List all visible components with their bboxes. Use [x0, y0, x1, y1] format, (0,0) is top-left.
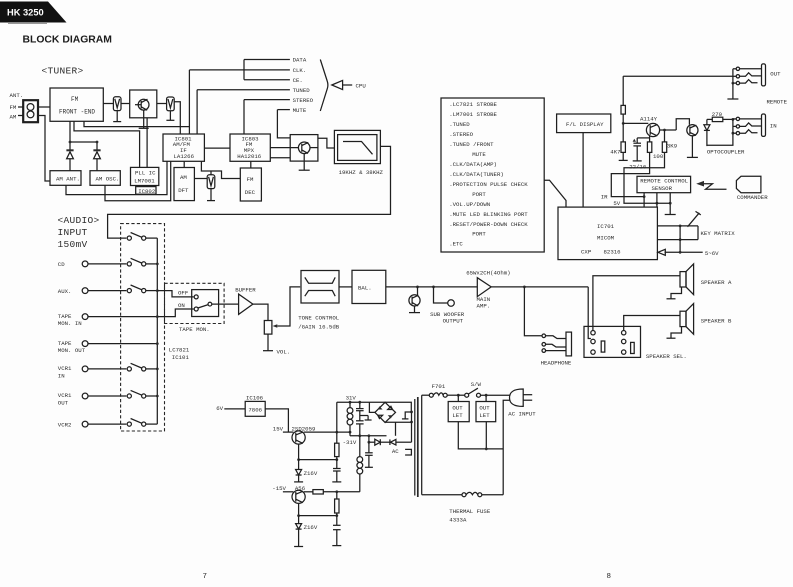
resistor R(-15V) — [336, 492, 338, 499]
5-6V supply line — [665, 251, 703, 253]
choke coil L2 — [359, 436, 361, 457]
svg-text:-31V: -31V — [343, 439, 357, 446]
outlet box 2 — [485, 395, 487, 401]
ground below C(15V) — [332, 481, 341, 483]
resistor 3K9 — [664, 130, 666, 142]
ground below FL2 — [169, 111, 171, 121]
svg-text:BLOCK DIAGRAM: BLOCK DIAGRAM — [23, 35, 112, 46]
wire list box to IC701 — [544, 180, 566, 207]
svg-text:AM: AM — [180, 174, 187, 181]
svg-text:IC802: IC802 — [138, 188, 156, 195]
fuse F701 — [422, 394, 430, 396]
wire 31V rail to bridge AC leg — [369, 402, 375, 412]
svg-text:IN: IN — [58, 373, 65, 380]
svg-text:BUFFER: BUFFER — [235, 287, 256, 294]
wire FL1 to RF amp box — [121, 103, 130, 105]
tape monitor contacts — [194, 295, 198, 299]
svg-text:HA12016: HA12016 — [237, 153, 261, 160]
svg-text:OUT: OUT — [58, 400, 69, 407]
svg-text:CPU: CPU — [356, 82, 367, 89]
svg-text:FM: FM — [71, 96, 79, 103]
svg-text:VCR1: VCR1 — [58, 365, 72, 372]
wire -15V rail — [283, 491, 294, 493]
wire connector to FM front-end — [38, 106, 50, 108]
AC neutral wire — [503, 400, 509, 495]
wire collector — [660, 129, 677, 131]
tape monitor switch box — [192, 290, 219, 317]
varactor diode D801 — [66, 149, 73, 151]
svg-text:.CLK/DATA(AMP): .CLK/DATA(AMP) — [449, 161, 497, 168]
speaker A — [680, 272, 686, 287]
ground below volume pot — [267, 334, 269, 351]
wire STEREO to IC803 — [243, 100, 245, 134]
sub woofer output jack — [434, 287, 448, 303]
block FM DEC — [240, 168, 261, 201]
wire amp output — [491, 286, 588, 288]
input terminal TAPE MON. OUT — [82, 341, 88, 347]
wire to speaker selector — [588, 287, 591, 339]
wire IC801 bottom jog to detector filter — [201, 161, 240, 178]
sensor pin IR — [643, 193, 645, 207]
svg-text:SPEAKER B: SPEAKER B — [701, 318, 732, 325]
ground below mute switch — [303, 154, 305, 171]
wire bus to OFF contact — [157, 291, 193, 297]
wire Q2 lower node — [298, 503, 300, 515]
resistor R701 — [622, 76, 624, 105]
svg-text:6V: 6V — [216, 405, 223, 412]
svg-text:FM: FM — [10, 104, 17, 111]
wire Q emitter — [298, 444, 300, 460]
buffer amp — [239, 294, 253, 314]
svg-text:Z16V: Z16V — [304, 524, 318, 531]
wire key matrix to 5-6V — [679, 226, 681, 252]
outlet return wires — [458, 422, 503, 449]
svg-text:65Wx2CH(4Ohm): 65Wx2CH(4Ohm) — [466, 269, 510, 276]
block IC801 AM/FM IF LA1266 — [163, 134, 204, 161]
main amplifier — [477, 278, 491, 297]
cap midpoint ground — [360, 415, 368, 417]
svg-text:VCR1: VCR1 — [58, 392, 72, 399]
AC diodes pair — [368, 436, 370, 442]
varactor diode D802 — [93, 149, 100, 151]
wire TAPE MON. IN — [88, 316, 157, 318]
svg-text:FRONT -END: FRONT -END — [59, 109, 95, 116]
svg-text:DATA: DATA — [293, 57, 307, 64]
sensor pin 5V — [656, 193, 658, 207]
block IC803 FM MPX HA12016 — [230, 134, 270, 161]
ground below zener upper — [294, 481, 303, 483]
ground below FL3 — [210, 189, 212, 201]
input terminal VCR1 OUT — [82, 393, 88, 399]
svg-text:PORT: PORT — [472, 231, 486, 238]
svg-text:HK 3250: HK 3250 — [7, 7, 44, 17]
svg-text:AM OSC.: AM OSC. — [96, 176, 120, 183]
svg-text:AC INPUT: AC INPUT — [508, 411, 536, 418]
choke coil L1 — [349, 402, 351, 408]
ground below RF amp — [143, 110, 145, 128]
micom port list box — [441, 98, 544, 252]
wire tuner output to input selector — [108, 146, 391, 238]
block BAL. — [352, 270, 386, 303]
svg-text:STEREO: STEREO — [293, 97, 314, 104]
input terminal AUX. — [82, 288, 88, 294]
outlet box 1 — [457, 395, 459, 401]
wire AM antenna line — [38, 116, 50, 182]
mute switch Q802 box — [290, 135, 318, 162]
svg-text:ON: ON — [178, 302, 185, 309]
node outlet1 — [457, 394, 460, 397]
svg-text:AM: AM — [10, 114, 17, 121]
wire FM label to connector — [18, 106, 23, 108]
svg-text:3K9: 3K9 — [667, 143, 678, 150]
wire RF amp to filter FL2 — [157, 103, 167, 105]
wire selector to speaker A — [593, 276, 680, 331]
svg-text:SPEAKER A: SPEAKER A — [701, 279, 732, 286]
svg-text:AUX.: AUX. — [58, 288, 72, 295]
signal line STEREO — [244, 99, 290, 101]
svg-text:VCR2: VCR2 — [58, 421, 72, 428]
wire IR — [611, 152, 649, 196]
svg-text:IR: IR — [601, 193, 608, 200]
block IC701 MICOM CXP82316 — [558, 207, 657, 260]
ground speaker A — [671, 287, 682, 299]
antenna connector J1 — [23, 100, 38, 122]
wire mute switch to scope — [318, 138, 335, 148]
svg-text:VOL.: VOL. — [277, 348, 291, 355]
bus DATA-CE bracket — [243, 60, 245, 80]
svg-text:OPTOCOUPLER: OPTOCOUPLER — [707, 148, 745, 155]
ground below zener lower — [294, 546, 303, 548]
key matrix lines — [657, 225, 698, 227]
svg-text:KEY MATRIX: KEY MATRIX — [701, 230, 736, 237]
wire FM front-end to filter FL1 — [103, 103, 113, 105]
svg-text:AC: AC — [392, 448, 399, 455]
wire 5V — [624, 152, 670, 203]
block F/L DISPLAY — [557, 114, 611, 133]
wire bridge plus to transformer side — [387, 402, 412, 412]
svg-text:OUT: OUT — [452, 405, 463, 412]
svg-text:DEC: DEC — [245, 189, 256, 196]
svg-text:Z16V: Z16V — [304, 470, 318, 477]
svg-text:REMOTE: REMOTE — [767, 99, 788, 106]
pilot filter scope box — [334, 130, 380, 163]
svg-text:CD: CD — [58, 261, 65, 268]
wire IC106 output — [265, 409, 288, 432]
block TONE CONTROL — [301, 271, 339, 304]
key matrix switch symbol — [688, 213, 700, 227]
resistor 270 — [707, 118, 712, 120]
svg-text:S/W: S/W — [471, 381, 482, 388]
wire 270 to remote-in jack — [723, 118, 733, 120]
remote out jack — [623, 75, 733, 77]
wire front-end AGC line — [84, 121, 189, 126]
svg-text:/GAIN 16.5dB: /GAIN 16.5dB — [298, 323, 340, 330]
svg-text:4K7: 4K7 — [610, 149, 620, 156]
model banner HK 3250 — [0, 2, 67, 23]
svg-text:.STEREO: .STEREO — [449, 131, 473, 138]
svg-text:150mV: 150mV — [58, 239, 88, 250]
label box IC802 — [136, 187, 156, 195]
svg-text:.MUTE LED BLINKING PORT: .MUTE LED BLINKING PORT — [449, 211, 528, 218]
ground below muting transistor — [414, 306, 416, 313]
svg-text:LET: LET — [452, 412, 463, 419]
CPU bracket — [320, 60, 328, 112]
resistor R(15V) — [336, 432, 338, 443]
svg-text:IC701: IC701 — [597, 223, 615, 230]
capacitor C(15V) — [333, 468, 341, 470]
svg-text:DFT: DFT — [178, 187, 189, 194]
selector switch VCR2 — [88, 423, 126, 425]
svg-text:MICOM: MICOM — [597, 235, 615, 242]
wire IC803 to FM DEC — [250, 161, 252, 168]
ground below C(-15V) — [332, 545, 341, 547]
wire to headphone — [524, 287, 541, 336]
headphone jack — [542, 334, 546, 338]
wire AM DFT to filter FL3 — [194, 178, 207, 180]
resistor 100 — [647, 142, 651, 153]
speaker selector box — [584, 326, 641, 357]
input terminal TAPE MON. IN — [82, 314, 88, 320]
chassis ground at transformer — [405, 412, 411, 419]
wire TAPE MON IN to ON contact — [157, 309, 193, 317]
wire buffer to volume pot — [253, 304, 268, 320]
svg-text:F/L DISPLAY: F/L DISPLAY — [566, 121, 604, 128]
svg-text:AMP.: AMP. — [477, 303, 491, 310]
wire TUNED to IC801 — [196, 90, 198, 134]
svg-text:TAPE: TAPE — [58, 313, 72, 320]
wire MUTE to mute switch — [277, 110, 290, 138]
filter FL2 — [167, 97, 175, 111]
svg-text:SENSOR: SENSOR — [652, 185, 673, 192]
svg-text:FM: FM — [247, 176, 254, 183]
svg-text:SPEAKER SEL.: SPEAKER SEL. — [646, 353, 687, 360]
signal line CE. — [244, 79, 290, 81]
wire 6V to IC106 — [224, 408, 245, 410]
shield bracket lower — [405, 449, 411, 455]
svg-text:MUTE: MUTE — [472, 151, 486, 158]
ground below AC cap — [365, 466, 373, 468]
svg-text:7: 7 — [203, 573, 208, 581]
speaker B — [680, 311, 686, 326]
wire tape monitor to buffer — [212, 303, 239, 305]
wire to optocoupler transistor — [676, 119, 689, 130]
wire IC801 to AM DFT — [183, 161, 185, 167]
wire AM ANT to IC801 — [66, 161, 167, 194]
selector switch CD — [88, 263, 126, 265]
block PLL IC LM7001 — [131, 167, 159, 185]
smoothing caps pair — [359, 402, 361, 408]
wire 15V rail — [283, 431, 294, 433]
svg-text:MON. OUT: MON. OUT — [58, 347, 86, 354]
remote commander handset — [736, 176, 761, 192]
svg-text:5~6V: 5~6V — [705, 250, 719, 257]
svg-text:OUT: OUT — [770, 71, 781, 78]
svg-text:31V: 31V — [346, 395, 357, 402]
svg-text:IN: IN — [770, 122, 777, 129]
wire CLK to tuner — [188, 70, 190, 134]
AC plug — [510, 389, 524, 406]
wire pot wiper to tone control — [277, 287, 300, 326]
signal line MUTE — [277, 109, 290, 111]
capacitor on AC line — [368, 442, 370, 453]
wire AM OSC to IC801 — [105, 161, 171, 201]
ground below FL1 — [116, 111, 118, 122]
selector switch VCR1 IN — [88, 368, 126, 370]
volume pot VR1 — [264, 321, 272, 335]
svg-text:19KHZ & 38KHZ: 19KHZ & 38KHZ — [339, 169, 384, 176]
svg-text:LET: LET — [479, 412, 490, 419]
svg-text:MUTE: MUTE — [293, 107, 307, 114]
optocoupler diode — [706, 119, 708, 124]
svg-text:OUT: OUT — [479, 405, 490, 412]
wire TAPE MON. OUT — [88, 343, 157, 345]
svg-text:BAL.: BAL. — [358, 285, 372, 292]
selector slots — [601, 341, 605, 352]
thermal fuse line — [422, 494, 462, 496]
svg-text:PLL IC: PLL IC — [135, 170, 156, 177]
svg-text:ANT.: ANT. — [10, 92, 24, 99]
svg-text:OFF: OFF — [178, 290, 189, 297]
transformer T701 — [414, 399, 416, 496]
block AM DFT — [174, 168, 194, 201]
optocoupler transistor — [687, 125, 698, 136]
node outlet2 — [485, 394, 488, 397]
input terminal VCR2 — [82, 421, 88, 427]
wire emitter node — [649, 136, 651, 142]
wire FM front-end to PLL IC pin — [74, 121, 140, 167]
input terminal VCR1 IN — [82, 366, 88, 372]
svg-text:8: 8 — [607, 573, 612, 581]
ground speaker B — [671, 327, 682, 339]
selector contacts — [591, 331, 595, 335]
svg-text:OUTPUT: OUTPUT — [443, 318, 464, 325]
varactor bus below FM front-end — [69, 121, 71, 149]
svg-text:IC106: IC106 — [246, 395, 264, 402]
svg-text:.LC7821 STROBE: .LC7821 STROBE — [449, 101, 497, 108]
svg-text:.RESET/POWER-DOWN CHECK: .RESET/POWER-DOWN CHECK — [449, 221, 528, 228]
31V rail — [337, 401, 387, 403]
sensor pin ground — [669, 193, 671, 215]
svg-text:CXP: CXP — [581, 249, 592, 256]
filter FL1 — [113, 97, 121, 111]
svg-text:<AUDIO>: <AUDIO> — [58, 215, 100, 226]
svg-text:.ETC: .ETC — [449, 241, 463, 248]
svg-text:TUNED: TUNED — [293, 87, 311, 94]
signal line DATA — [244, 59, 290, 61]
CPU arrow — [332, 80, 343, 89]
svg-text:INPUT: INPUT — [58, 227, 88, 238]
svg-text:.PROTECTION PULSE CHECK: .PROTECTION PULSE CHECK — [449, 181, 528, 188]
svg-text:TAPE: TAPE — [58, 340, 72, 347]
resistor 4K7 — [621, 142, 625, 153]
svg-text:MON. IN: MON. IN — [58, 320, 82, 327]
wire transformer sense — [411, 412, 413, 442]
svg-text:.LM7001 STROBE: .LM7001 STROBE — [449, 111, 497, 118]
zener Z16V lower — [298, 516, 300, 524]
wire optocoupler return loop — [707, 133, 733, 145]
wire FL2 to IC801 input — [174, 102, 180, 134]
svg-text:THERMAL FUSE: THERMAL FUSE — [449, 508, 491, 515]
ground remote out — [732, 82, 735, 85]
wire IC801 to IC803 — [204, 147, 230, 149]
svg-text:LM7001: LM7001 — [134, 178, 155, 185]
selector switch VCR1 OUT — [88, 395, 126, 397]
signal line CLK. — [189, 69, 290, 71]
remote in jack — [732, 119, 734, 133]
wire -31V to bridge minus — [395, 422, 397, 436]
svg-text:100: 100 — [653, 153, 664, 160]
svg-text:COMMANDER: COMMANDER — [737, 194, 768, 201]
svg-text:<TUNER>: <TUNER> — [42, 66, 84, 77]
ground below 4K7 — [619, 159, 628, 161]
-31V rail — [350, 435, 387, 437]
block AM OSC. — [90, 171, 120, 186]
svg-text:REMOTE CONTROL: REMOTE CONTROL — [640, 178, 688, 185]
wire IC803 lower line to mute switch — [270, 157, 290, 159]
transistor A56 — [292, 490, 305, 503]
svg-text:AM ANT.: AM ANT. — [56, 176, 80, 183]
ground below 22/16 — [633, 160, 642, 162]
block REMOTE CONTROL SENSOR — [637, 176, 691, 192]
svg-text:TONE CONTROL: TONE CONTROL — [298, 315, 340, 322]
svg-text:TAPE MON.: TAPE MON. — [179, 326, 210, 333]
resistor base A56 — [304, 491, 313, 493]
selector switch TUNER — [125, 237, 127, 239]
wire bridge minus — [385, 421, 411, 423]
svg-text:LC7821: LC7821 — [169, 347, 190, 354]
ground below optocoupler — [691, 136, 693, 158]
svg-text:F701: F701 — [432, 383, 446, 390]
svg-text:IC101: IC101 — [172, 354, 190, 361]
svg-text:4333A: 4333A — [449, 516, 467, 523]
svg-text:82316: 82316 — [604, 249, 622, 256]
svg-text:CE.: CE. — [293, 77, 303, 84]
selector switch AUX. — [88, 290, 126, 292]
svg-text:-15V: -15V — [272, 485, 286, 492]
svg-text:270: 270 — [712, 111, 723, 118]
capacitor C(-15V) — [333, 524, 341, 526]
RF amplifier transistor Q801 box — [130, 90, 157, 118]
bridge rectifier D701 — [375, 402, 396, 422]
muting transistor Q2 — [417, 287, 419, 296]
svg-text:7806: 7806 — [248, 407, 262, 414]
tape monitor dashed box — [165, 283, 225, 323]
svg-text:LA1266: LA1266 — [174, 153, 195, 160]
svg-text:HEADPHONE: HEADPHONE — [541, 360, 572, 367]
svg-text:22/16: 22/16 — [629, 164, 647, 171]
svg-text:15V: 15V — [273, 426, 284, 433]
svg-text:.TUNED: .TUNED — [449, 121, 470, 128]
node headphone — [523, 286, 526, 289]
svg-text:PORT: PORT — [472, 191, 486, 198]
selector IC dashed box — [121, 224, 165, 431]
block AM ANT. — [50, 171, 81, 186]
svg-text:.CLK/DATA(TUNER): .CLK/DATA(TUNER) — [449, 171, 504, 178]
input terminal CD — [82, 261, 88, 267]
node subwoofer — [432, 286, 435, 289]
signal line TUNED — [197, 89, 290, 91]
selector output bus — [156, 238, 158, 424]
wire tone control to balance — [339, 286, 352, 288]
svg-text:5V: 5V — [613, 200, 620, 207]
svg-text:A114Y: A114Y — [640, 116, 658, 123]
zener Z16V upper — [298, 460, 300, 470]
capacitor 22/16 — [636, 138, 638, 143]
main signal line — [386, 286, 478, 288]
svg-text:.VOL.UP/DOWN: .VOL.UP/DOWN — [449, 201, 490, 208]
block FM FRONT-END — [50, 88, 103, 121]
svg-text:.TUNED /FRONT: .TUNED /FRONT — [449, 141, 494, 148]
